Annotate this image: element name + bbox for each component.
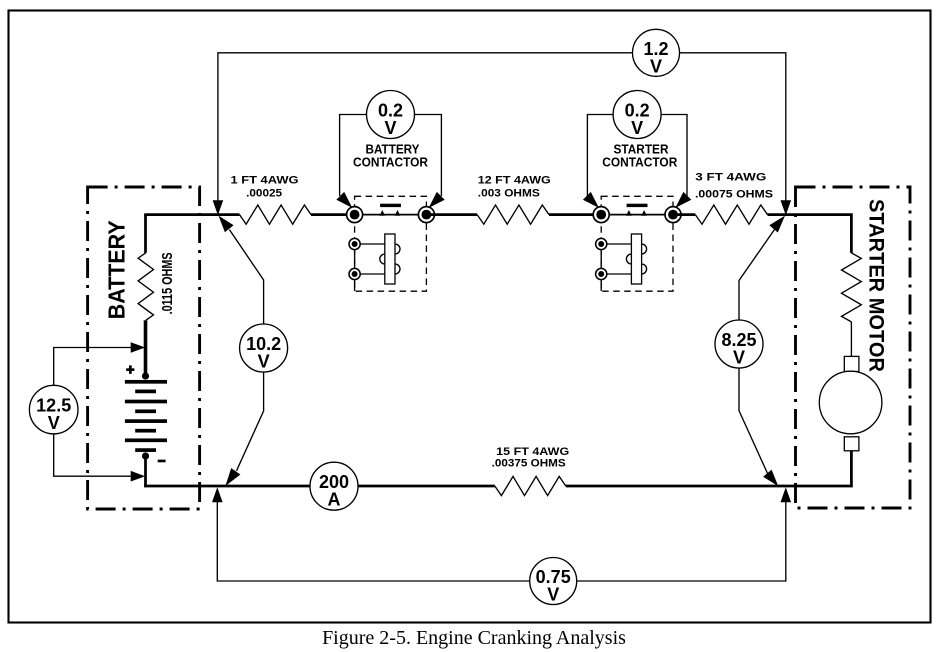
svg-text:12 FT 4AWG: 12 FT 4AWG xyxy=(478,174,551,186)
svg-text:CONTACTOR: CONTACTOR xyxy=(353,156,428,170)
wire 8.25V meter upper lead xyxy=(739,230,775,321)
junction dot battery positive xyxy=(142,372,149,379)
svg-text:V: V xyxy=(631,118,643,138)
label battery minus xyxy=(158,460,166,463)
terminal K2 coil lower xyxy=(596,268,607,279)
wire 12.5V meter positive lead xyxy=(54,348,136,386)
svg-text:V: V xyxy=(650,56,662,76)
svg-text:V: V xyxy=(733,348,745,368)
svg-text:V: V xyxy=(384,118,396,138)
label battery plus xyxy=(126,368,134,371)
wire K1 coil terminal link xyxy=(354,244,356,291)
svg-text:.003 OHMS: .003 OHMS xyxy=(478,187,540,199)
wire 10.2V meter upper lead xyxy=(229,230,263,324)
contactor K2 coil winding xyxy=(605,244,646,274)
wire 1.2V loop right leg xyxy=(680,53,786,201)
wire top bus K1 to R2 xyxy=(426,213,477,216)
svg-text:3 FT 4AWG: 3 FT 4AWG xyxy=(695,172,766,184)
contactor K1 coil core xyxy=(385,234,395,284)
battery BT1 plates xyxy=(125,380,167,384)
wire 0.2V meter lead to K2 load terminal xyxy=(661,115,687,197)
svg-text:.0115 OHMS: .0115 OHMS xyxy=(159,252,176,314)
svg-text:STARTER MOTOR: STARTER MOTOR xyxy=(865,199,889,372)
voltmeter 12.5 V battery terminal voltage xyxy=(29,385,78,434)
svg-text:BATTERY: BATTERY xyxy=(103,220,129,319)
wire K2 coil terminal link xyxy=(600,244,602,291)
wire 0.75V loop right leg xyxy=(577,500,786,581)
motor M1 armature xyxy=(819,371,882,434)
motor upper brush block xyxy=(844,356,859,371)
wire top bus battery to R1 xyxy=(144,213,239,216)
battery enclosure xyxy=(88,187,200,509)
wire motor to bottom bus xyxy=(850,451,853,487)
svg-text:CONTACTOR: CONTACTOR xyxy=(602,156,677,170)
contactor K1 movable contact bar xyxy=(380,204,401,207)
wire 0.2V meter lead to K2 line terminal xyxy=(587,115,613,197)
svg-text:STARTER: STARTER xyxy=(614,142,669,156)
wire 1.2V loop left leg xyxy=(218,53,633,201)
svg-text:.00375 OHMS: .00375 OHMS xyxy=(492,458,566,470)
terminal K1 coil lower xyxy=(349,268,360,279)
contactor K1 enclosure xyxy=(355,196,427,291)
contactor K2 enclosure xyxy=(601,196,673,291)
wire bottom bus battery to ammeter xyxy=(144,485,310,488)
voltmeter 8.25 V starter input xyxy=(715,320,763,368)
terminal K2 coil upper xyxy=(596,238,607,249)
voltmeter 10.2 V battery output xyxy=(240,324,288,372)
wire contact span K1 xyxy=(355,214,427,216)
voltmeter 0.75 V ground cable drop xyxy=(530,558,577,605)
svg-text:V: V xyxy=(258,352,270,372)
svg-text:Figure 2-5. Engine Cranking An: Figure 2-5. Engine Cranking Analysis xyxy=(322,627,626,649)
wire resistor to battery positive plate xyxy=(144,320,148,377)
resistor R2 interconnect cable 12FT xyxy=(477,205,549,224)
wire 0.2V meter lead to K1 load terminal xyxy=(415,115,442,197)
resistor starter motor winding xyxy=(842,253,862,322)
motor lower brush block xyxy=(844,437,859,451)
voltmeter 1.2 V contactor span drop xyxy=(633,29,680,76)
contactor K2 fixed contact points xyxy=(626,210,632,216)
wire top bus K2 to R3 xyxy=(673,213,695,216)
svg-text:.00025: .00025 xyxy=(246,187,282,199)
wire battery negative to bottom bus xyxy=(144,454,147,487)
junction dot battery negative xyxy=(142,452,149,459)
wire winding to upper brush xyxy=(850,322,852,357)
wire bottom bus ammeter to R4 xyxy=(358,485,495,488)
contactor K2 coil core xyxy=(631,234,641,284)
wire bottom bus R4 to starter motor xyxy=(566,485,853,488)
resistor R4 ground return cable 15FT xyxy=(495,476,566,495)
contactor K2 movable contact bar xyxy=(627,204,648,207)
wire 0.2V meter lead to K1 line terminal xyxy=(340,115,367,197)
wire top bus R1 to battery contactor xyxy=(311,213,355,216)
wire 12.5V meter negative lead xyxy=(54,434,136,476)
starter motor enclosure xyxy=(796,187,911,508)
wire battery positive riser xyxy=(144,215,147,253)
voltmeter 0.2 V battery contactor drop xyxy=(367,91,415,139)
terminal K2 load side xyxy=(665,207,681,223)
voltmeter 0.2 V starter contactor drop xyxy=(613,91,661,139)
contactor K1 fixed contact points xyxy=(380,210,386,216)
resistor R1 battery cable 1FT xyxy=(240,205,312,224)
terminal K1 coil upper xyxy=(349,238,360,249)
wire top bus R3 to starter motor xyxy=(768,215,852,253)
wire contact span K2 xyxy=(601,214,673,216)
wire top bus R2 to starter contactor xyxy=(549,213,601,216)
wire 10.2V meter lower lead xyxy=(237,372,264,471)
ammeter 200 A cranking current xyxy=(310,462,358,510)
terminal K2 line side xyxy=(593,207,609,223)
svg-text:V: V xyxy=(48,413,60,433)
svg-text:1 FT 4AWG: 1 FT 4AWG xyxy=(231,174,299,186)
wire 8.25V meter lower lead xyxy=(739,368,768,474)
resistor R3 starter cable 3FT xyxy=(695,205,767,224)
svg-text:A: A xyxy=(328,490,341,510)
contactor K1 coil winding xyxy=(359,244,400,274)
svg-text:.00075 OHMS: .00075 OHMS xyxy=(695,189,773,201)
terminal K1 line side xyxy=(347,207,363,223)
resistor battery internal resistance xyxy=(138,253,153,320)
svg-text:V: V xyxy=(547,585,559,605)
svg-text:15 FT 4AWG: 15 FT 4AWG xyxy=(496,446,569,458)
svg-text:BATTERY: BATTERY xyxy=(366,142,421,156)
wire 0.75V loop left leg xyxy=(217,500,529,581)
terminal K1 load side xyxy=(418,207,434,223)
